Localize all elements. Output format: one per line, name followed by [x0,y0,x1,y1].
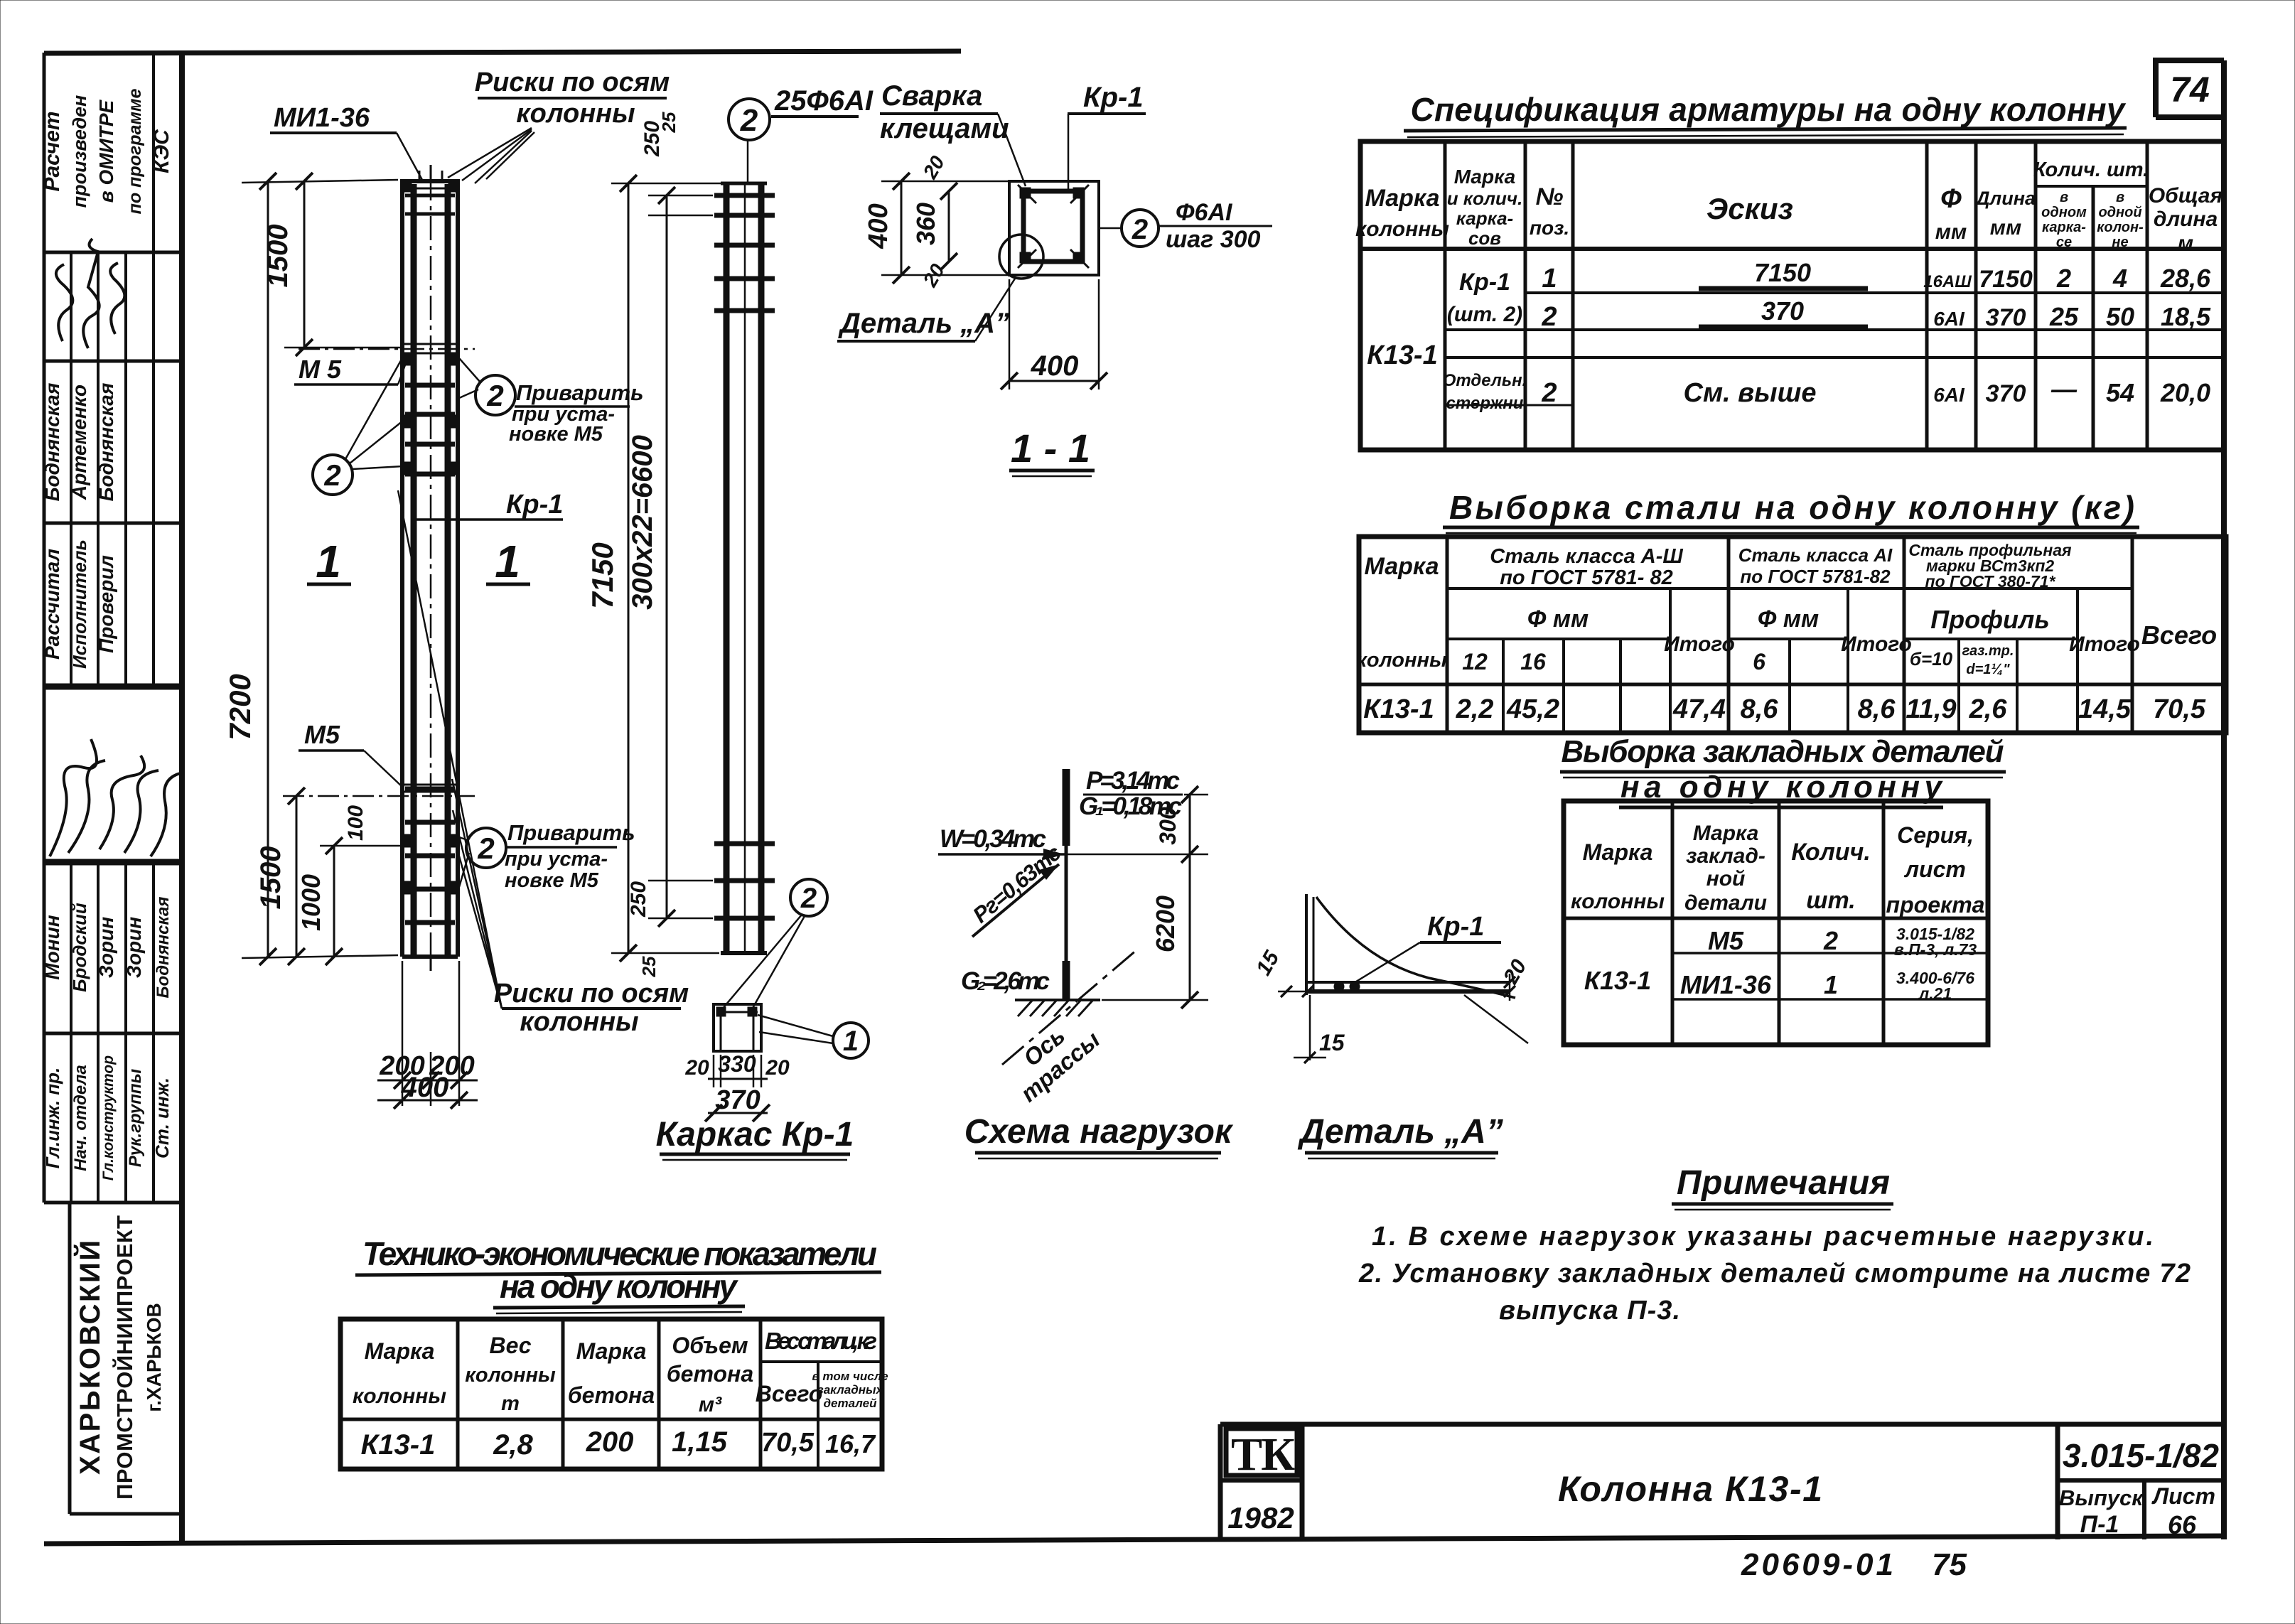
svg-text:б=10: б=10 [1910,648,1953,670]
svg-text:поз.: поз. [1530,217,1569,239]
svg-text:карка-: карка- [2042,220,2086,235]
svg-text:2: 2 [477,832,494,865]
upper stirrups [405,383,455,388]
label f6AI shag 300 with circle 2 [1099,199,1272,253]
plate horizontal double [1306,981,1510,984]
frame left (right edge of title strip) [179,52,185,1541]
column outline right [456,181,460,957]
svg-text:50: 50 [2106,302,2134,331]
svg-text:колонны: колонны [1355,217,1449,241]
svg-text:Выпуск: Выпуск [2059,1485,2144,1510]
dim 360 [911,183,957,270]
svg-text:Гл.инж. пр.: Гл.инж. пр. [42,1068,63,1169]
upper zone riska dashdot line [299,348,475,350]
svg-text:66: 66 [2168,1510,2197,1539]
svg-text:газ.тр.: газ.тр. [1962,643,2014,659]
svg-text:20: 20 [765,1056,790,1080]
ground [1015,999,1100,1001]
svg-text:Деталь „А”: Деталь „А” [1297,1113,1503,1151]
svg-text:47,4: 47,4 [1672,694,1726,724]
svg-text:Серия,: Серия, [1897,822,1974,848]
svg-text:15: 15 [1319,1030,1345,1055]
dim 300 right [1189,795,1191,854]
svg-text:360: 360 [911,203,940,245]
svg-text:по ГОСТ 5781- 82: по ГОСТ 5781- 82 [1500,566,1673,589]
stirrup square [1023,191,1082,262]
svg-text:К13-1: К13-1 [1363,694,1434,724]
svg-text:7150: 7150 [1979,266,2033,293]
svg-text:се: се [2056,235,2072,250]
strip roles upper: Рассчитал Исполнитель Проверил [41,539,117,669]
svg-text:ПРОМСТРОЙНИИПРОЕКТ: ПРОМСТРОЙНИИПРОЕКТ [112,1215,137,1500]
svg-text:Схема нагрузок: Схема нагрузок [964,1113,1234,1151]
strip separator y1454 [44,1032,182,1036]
frame bottom border [44,1536,2224,1544]
svg-text:Марка: Марка [1365,553,1439,580]
risk tick bottom [430,958,432,971]
callout circle 2 to cross-section [722,879,827,1009]
svg-text:выпуска П-3.: выпуска П-3. [1499,1296,1680,1325]
svg-text:Сталь класса А-Ш: Сталь класса А-Ш [1490,545,1683,568]
svg-text:ТК: ТК [1231,1429,1295,1480]
svg-text:Выборка закладных деталей: Выборка закладных деталей [1562,734,2004,769]
bottom stirrups [405,787,455,792]
svg-text:Артеменко: Артеменко [68,385,90,500]
svg-text:Марка: Марка [1693,822,1759,845]
svg-text:Марка: Марка [1365,185,1440,212]
upper M5 plates right [449,353,458,365]
break curve [1316,897,1515,998]
right cells [2055,1424,2060,1539]
footer number [1741,1547,1967,1582]
dim 300x22=6600 [627,112,713,977]
svg-text:400: 400 [401,1072,449,1103]
svg-text:Сталь класса АI: Сталь класса АI [1738,544,1893,566]
column top edge [400,179,460,183]
strip signatures upper [56,239,124,348]
svg-text:Ф мм: Ф мм [1527,606,1589,633]
svg-text:3.015-1/82: 3.015-1/82 [2063,1437,2219,1474]
svg-text:2: 2 [1132,214,1148,245]
svg-text:деталей: деталей [824,1397,878,1410]
svg-text:Приварить: Приварить [507,820,635,845]
frame right border [2221,60,2227,1539]
svg-text:370: 370 [1986,304,2026,331]
TK logo [1226,1429,1297,1475]
svg-text:новке М5: новке М5 [509,423,603,446]
section mark 1 (right) [486,536,530,587]
svg-text:М 5: М 5 [299,355,342,384]
svg-text:закладных: закладных [817,1383,883,1397]
svg-text:2,8: 2,8 [493,1429,533,1461]
svg-text:Проверил: Проверил [95,555,117,653]
top stirrup marks [405,194,455,198]
upper zone double lines [402,343,458,345]
svg-text:250: 250 [627,881,650,918]
svg-text:не: не [2112,235,2128,250]
svg-text:8,6: 8,6 [1858,694,1896,724]
label riski po osyam kolonny (bottom) [398,490,689,1037]
svg-text:2: 2 [486,379,503,412]
svg-text:лист: лист [1903,856,1966,882]
svg-text:при уста-: при уста- [505,848,608,871]
svg-text:300x22=6600: 300x22=6600 [627,435,658,610]
strip names lower: Монин Бродский Зорин Зорин Боднянская [41,897,173,999]
svg-text:Вес: Вес [489,1333,531,1358]
svg-text:400: 400 [1031,350,1079,382]
svg-text:Каркас Кр-1: Каркас Кр-1 [656,1116,854,1154]
svg-text:Исполнитель: Исполнитель [69,539,90,669]
svg-text:P=3,14тс: P=3,14тс [1086,767,1180,795]
svg-text:Нач. отдела: Нач. отдела [71,1065,90,1171]
svg-text:45,2: 45,2 [1506,694,1559,724]
svg-text:в том числе: в том числе [812,1370,888,1383]
cage top edge [721,182,767,185]
svg-text:25: 25 [638,956,660,977]
svg-text:Риски по осям: Риски по осям [494,979,689,1009]
svg-text:шт.: шт. [1806,887,1855,914]
dims 20 top/bottom [918,152,949,291]
svg-text:Риски по осям: Риски по осям [475,68,670,97]
column line [1065,769,1068,1000]
svg-text:1 - 1: 1 - 1 [1011,426,1090,470]
svg-text:новке М5: новке М5 [505,869,599,892]
svg-text:74: 74 [2170,70,2210,109]
svg-text:d=1¼": d=1¼" [1966,662,2010,677]
svg-text:в ОМИТРЕ: в ОМИТРЕ [95,99,117,203]
svg-text:25Ф6АI: 25Ф6АI [774,85,874,117]
svg-text:м³: м³ [699,1393,722,1416]
label riski po osyam kolonny (top) [448,68,670,183]
svg-text:по ГОСТ 5781-82: по ГОСТ 5781-82 [1740,566,1891,587]
svg-text:Рассчитал: Рассчитал [41,549,63,660]
svg-text:Вес стали, кг: Вес стали, кг [765,1328,877,1354]
strip cell: расчет произведен в ОМИТРЕ по программе КЭС [41,89,173,215]
svg-text:клещами: клещами [880,113,1009,144]
svg-text:Боднянская: Боднянская [41,383,63,502]
strip roles lower [42,1055,173,1181]
strip separator y355 [44,251,182,254]
svg-text:300: 300 [1155,807,1181,845]
svg-text:Всего: Всего [756,1381,823,1407]
Pg diagonal [972,864,1059,937]
frame [1564,801,1988,1045]
section mark 1 (left) [307,536,351,587]
svg-text:бетона: бетона [568,1382,655,1408]
top stirrups [714,193,775,198]
svg-text:Примечания: Примечания [1677,1164,1890,1202]
svg-text:1: 1 [1824,970,1838,999]
dim 1500 bottom [255,787,305,965]
svg-text:Итого: Итого [1664,633,1735,656]
concrete outline [1009,181,1099,275]
svg-text:370: 370 [1986,380,2026,407]
svg-text:Объем: Объем [672,1333,748,1358]
svg-text:Технико-экономические показат: Технико-экономические показатели [362,1235,877,1272]
bottom zone riska dashdot [283,795,475,797]
svg-text:Гл.конструктор: Гл.конструктор [100,1055,117,1181]
column outline left [400,181,404,957]
svg-text:1,15: 1,15 [672,1426,728,1458]
column axis dash-dot [430,176,432,961]
svg-text:МИ1-36: МИ1-36 [1680,970,1772,999]
strip signatures lower big scribbles [50,739,183,856]
table frame [1360,141,2224,450]
svg-text:Эскиз: Эскиз [1707,192,1793,225]
svg-text:—: — [2051,375,2078,404]
svg-text:колон-: колон- [2097,220,2144,235]
label svarka kleschami [880,80,1026,186]
svg-text:2: 2 [1541,378,1557,408]
svg-text:4: 4 [2112,264,2127,293]
svg-text:2,2: 2,2 [1456,694,1494,724]
svg-text:колонны: колонны [1571,890,1665,913]
svg-text:КЭС: КЭС [150,129,173,173]
dim 6200 right [1189,854,1191,1000]
strip internal verticals [70,252,72,687]
svg-text:7200: 7200 [223,674,257,740]
svg-text:Колич.: Колич. [1791,839,1871,866]
frame [340,1319,882,1469]
svg-text:Итого: Итого [1841,633,1912,656]
cage thin longitudinal [744,183,746,953]
svg-text:Колонна К13-1: Колонна К13-1 [1558,1469,1822,1509]
dim 15 bottom [1309,995,1311,1060]
svg-text:ХАРЬКОВСКИЙ: ХАРЬКОВСКИЙ [73,1240,106,1475]
svg-text:на одну колонну: на одну колонну [500,1268,738,1305]
svg-text:Кр-1: Кр-1 [506,490,563,520]
rebar dots [1334,982,1344,991]
svg-text:Сварка: Сварка [881,80,982,112]
svg-text:Ст. инж.: Ст. инж. [151,1077,173,1158]
svg-text:Ф мм: Ф мм [1758,606,1819,633]
title Karkas Kr-1 [656,1116,854,1160]
svg-text:Расчет: Расчет [41,111,64,191]
svg-text:Выборка стали на одну коло: Выборка стали на одну колонну (кг) [1449,489,2134,526]
svg-text:и колич.: и колич. [1447,188,1523,209]
svg-text:произведен: произведен [69,95,90,208]
dim 15 left [1278,991,1306,993]
svg-text:заклад-: заклад- [1686,844,1765,868]
svg-text:1500: 1500 [262,225,294,288]
svg-text:20,0: 20,0 [2160,378,2210,407]
svg-text:Колич. шт.: Колич. шт. [2033,158,2149,181]
org block Харьковский Промстройниипроект [70,1203,182,1514]
svg-text:м: м [2178,232,2193,255]
svg-text:1500: 1500 [255,846,286,910]
left title strip outer edge [43,53,46,1203]
svg-text:одной: одной [2098,205,2141,220]
svg-text:по ГОСТ 380-71*: по ГОСТ 380-71* [1925,572,2056,591]
dim 370 [705,1085,770,1122]
svg-text:Марка: Марка [576,1338,647,1364]
svg-text:Марка: Марка [1454,166,1515,188]
svg-text:колонны: колонны [353,1384,446,1408]
svg-text:2: 2 [323,458,340,492]
svg-text:370: 370 [1761,296,1804,326]
svg-text:Спецификация арматуры на од: Спецификация арматуры на одну колонну [1411,91,2127,128]
svg-text:400: 400 [864,203,893,249]
svg-text:М5: М5 [304,720,340,749]
label MI1-36 [270,103,422,180]
svg-text:1: 1 [1542,264,1557,294]
svg-text:Деталь „А”: Деталь „А” [838,308,1009,339]
svg-text:70,5: 70,5 [761,1428,815,1458]
svg-text:К13-1: К13-1 [361,1429,436,1461]
svg-text:№: № [1536,183,1564,210]
svg-text:Итого: Итого [2069,633,2140,656]
label Kr-1 on column [413,490,563,520]
svg-text:л.21: л.21 [1918,984,1952,1003]
svg-text:Лист: Лист [2151,1483,2215,1509]
svg-text:Кр-1: Кр-1 [1427,912,1484,942]
svg-text:Кр-1: Кр-1 [1459,269,1510,296]
svg-text:25: 25 [658,112,679,133]
svg-text:длина: длина [2154,208,2218,231]
svg-text:ной: ной [1707,867,1746,891]
svg-text:7150: 7150 [1754,258,1811,287]
svg-text:колонны: колонны [1356,649,1447,672]
svg-text:в: в [2116,190,2124,205]
svg-text:К13-1: К13-1 [1367,340,1437,370]
svg-text:2: 2 [1823,926,1838,955]
stirrup hook ticks [1018,185,1036,203]
svg-text:детали: детали [1684,891,1767,915]
svg-text:2: 2 [740,103,758,138]
column edge vertical double [1305,894,1308,995]
rebar bar left [411,184,417,954]
strip names upper: Боднянская Артеменко Боднянская [41,383,117,502]
callout circle 2 (left) [313,357,403,495]
svg-text:6200: 6200 [1151,896,1180,952]
svg-text:Длина: Длина [1974,188,2036,209]
cage bar right [758,183,765,953]
svg-text:проекта: проекта [1886,892,1985,918]
detail A circle [999,235,1043,279]
svg-text:8,6: 8,6 [1741,694,1779,724]
svg-text:Монин: Монин [41,915,63,979]
svg-text:11,9: 11,9 [1906,694,1956,724]
svg-text:мм: мм [1935,220,1967,244]
column bottom edge [402,954,458,959]
svg-text:Зорин: Зорин [123,917,145,978]
svg-text:по программе: по программе [125,89,145,215]
svg-text:К13-1: К13-1 [1584,966,1651,995]
svg-text:2,6: 2,6 [1969,694,2008,724]
callout circle 2 privarit lower [459,820,635,892]
cage bar left [724,183,730,953]
svg-text:Бродский: Бродский [69,903,90,992]
svg-text:6АI: 6АI [1933,384,1965,406]
risk tick top [430,165,432,179]
svg-text:Профиль: Профиль [1930,605,2049,634]
svg-text:Марка: Марка [365,1338,435,1364]
dim 7150 [586,175,725,962]
dim 400 bottom of section [1001,279,1107,389]
upper M5 plates left [402,353,411,365]
svg-text:16: 16 [1520,649,1546,674]
dim 400 left of section [864,173,1009,284]
svg-text:200: 200 [586,1426,634,1458]
label M5 lower [299,720,403,787]
dim 1000 bottom [296,837,402,965]
callout circle 2 privarit upper [459,358,644,446]
axis of route diagonal [1002,950,1137,1065]
svg-text:25: 25 [2049,302,2079,331]
strip separator y736 [44,522,182,525]
svg-text:стержни: стержни [1446,394,1524,413]
svg-text:колонны: колонны [516,99,635,129]
svg-text:мм: мм [1990,216,2021,240]
strip separator y964 thick [44,684,182,690]
svg-text:в: в [2060,190,2068,205]
svg-text:(шт. 2): (шт. 2) [1447,303,1522,326]
svg-text:См. выше: См. выше [1684,378,1817,408]
svg-text:одном: одном [2041,205,2087,220]
svg-text:75: 75 [1932,1547,1967,1582]
svg-text:G₂=2,6тс: G₂=2,6тс [961,967,1050,995]
svg-text:г.ХАРЬКОВ: г.ХАРЬКОВ [143,1303,165,1411]
svg-text:карка-: карка- [1456,208,1513,229]
svg-text:1: 1 [495,536,520,587]
dim 1500 top [262,173,402,356]
svg-text:1: 1 [316,536,341,587]
svg-text:Кр-1: Кр-1 [1083,82,1144,113]
svg-text:Зорин: Зорин [95,917,117,978]
svg-text:Общая: Общая [2149,184,2223,208]
svg-text:колонны: колонны [520,1007,638,1037]
svg-text:14,5: 14,5 [2078,694,2132,724]
svg-text:1: 1 [843,1026,859,1057]
svg-text:МИ1-36: МИ1-36 [274,103,370,133]
svg-text:16АШ: 16АШ [1923,272,1972,291]
sheet number box 74 [2156,60,2224,117]
label detail A (upper) [837,279,1015,341]
dim 7200 [223,173,398,965]
svg-text:Боднянская: Боднянская [95,383,117,502]
label Kr-1 over section [1068,82,1146,192]
svg-text:330: 330 [718,1051,756,1077]
frame top border [44,51,961,53]
bottom M5 plates [402,834,411,847]
svg-text:Рук.группы: Рук.группы [126,1068,145,1167]
strip separator y1692 [44,1201,182,1205]
strip separator y508 [44,360,182,363]
dims 200 200 under column [377,961,478,1106]
svg-text:W=0,34тс: W=0,34тс [940,825,1046,853]
svg-text:7150: 7150 [586,542,619,608]
dim 100 bottom [344,805,367,841]
bottom zone double lines [402,784,458,786]
svg-text:18,5: 18,5 [2161,302,2211,331]
svg-text:сов: сов [1468,227,1501,249]
svg-text:Всего: Всего [2141,620,2217,650]
svg-text:колонны: колонны [465,1364,556,1387]
svg-text:т: т [501,1392,520,1415]
svg-text:М5: М5 [1708,926,1744,955]
svg-text:28,6: 28,6 [2160,264,2211,293]
svg-text:100: 100 [344,805,367,841]
svg-text:2: 2 [1541,302,1557,332]
svg-text:20: 20 [684,1056,709,1080]
dim 400 under column [377,1072,478,1109]
svg-text:бетона: бетона [667,1361,753,1387]
rebar bar right [445,184,451,954]
top corner plates [402,183,412,192]
cage cross-section small rect [714,1004,761,1051]
svg-text:Отдельн.: Отдельн. [1443,371,1527,390]
svg-text:П-1: П-1 [2080,1511,2119,1538]
